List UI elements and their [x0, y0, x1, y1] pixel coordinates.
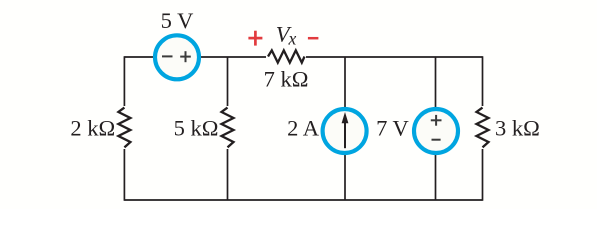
V1 plus terminal mark [180, 51, 191, 62]
V2 plus terminal mark [431, 115, 442, 126]
wire 5k branch [227, 57, 229, 200]
svg-text:2 A: 2 A [287, 116, 320, 141]
wire right branch [482, 56, 484, 201]
svg-text:3 kΩ: 3 kΩ [495, 116, 540, 141]
svg-text:7 V: 7 V [376, 116, 409, 141]
V2 minus terminal mark [432, 139, 441, 141]
resistor R 5k (vertical zigzag) [220, 106, 235, 149]
resistor R 7k (horizontal zigzag) [266, 49, 306, 64]
I1 arrow [342, 112, 349, 148]
wire left branch [123, 56, 125, 201]
wire top [124, 56, 482, 58]
resistor R 2k (left vertical zigzag) [117, 106, 132, 149]
voltage source V1 5V (circle) [155, 35, 199, 79]
svg-text:2 kΩ: 2 kΩ [70, 116, 115, 141]
resistor R 3k (right vertical zigzag) [475, 106, 490, 149]
voltage source V2 7V (circle) [414, 109, 458, 153]
node label + Vx - (red polarity marks) [248, 31, 318, 46]
wire 7V branch [435, 57, 437, 200]
V1 minus terminal mark [162, 55, 173, 57]
current source I1 2A (circle) [323, 109, 367, 153]
svg-text:7 kΩ: 7 kΩ [264, 67, 309, 92]
wire 2A branch [344, 57, 346, 200]
svg-text:5 kΩ: 5 kΩ [174, 116, 219, 141]
svg-text:5 V: 5 V [161, 8, 194, 33]
wire bottom [124, 199, 482, 201]
svg-text:Vx: Vx [276, 21, 297, 48]
